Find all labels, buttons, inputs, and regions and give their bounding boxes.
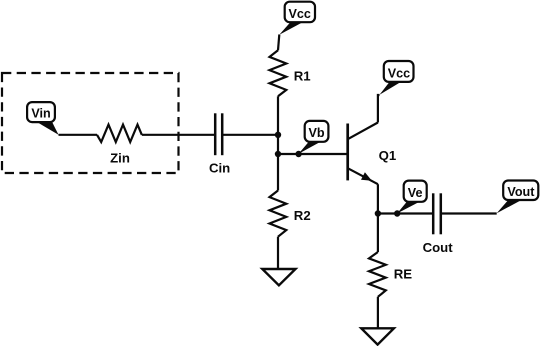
ground (RE branch) xyxy=(361,328,394,344)
wire emitter to Ve node xyxy=(377,184,379,213)
svg-text:Cout: Cout xyxy=(423,240,454,255)
svg-text:RE: RE xyxy=(394,267,413,282)
capacitor Cout xyxy=(433,193,441,234)
flag Ve xyxy=(397,181,427,214)
node Vb tap xyxy=(295,151,301,157)
wire base node to R2 xyxy=(277,154,279,191)
wire Vcc to R1 xyxy=(278,35,279,51)
label Q1 xyxy=(379,148,397,163)
svg-text:Zin: Zin xyxy=(110,151,130,166)
label Cin xyxy=(209,161,230,176)
svg-text:Ve: Ve xyxy=(408,186,423,200)
svg-text:Vcc: Vcc xyxy=(388,66,410,80)
wire R1 to input node xyxy=(277,96,279,135)
svg-text:Cin: Cin xyxy=(209,161,230,176)
wire Zin to Cin xyxy=(142,134,215,136)
svg-text:R1: R1 xyxy=(294,69,311,84)
wire collector to Vcc xyxy=(378,95,380,123)
dashed input impedance box xyxy=(2,73,179,173)
wire base node to Q1 base xyxy=(278,153,348,155)
node emitter junction xyxy=(375,210,381,216)
wire RE to ground xyxy=(377,297,379,329)
ground (R2 branch) xyxy=(262,269,295,285)
transistor Q1 xyxy=(348,123,378,185)
wire Cout to Vout xyxy=(441,212,497,214)
wire Ve node to RE xyxy=(377,214,379,253)
label RE xyxy=(394,267,413,282)
wire Vin to Zin xyxy=(59,134,98,136)
label Cout xyxy=(423,240,454,255)
wire Cin to base node xyxy=(222,134,278,136)
power flag Vcc (top) xyxy=(279,2,315,35)
resistor Zin xyxy=(97,125,142,142)
node Ve tap xyxy=(394,210,400,216)
port flag Vin xyxy=(27,102,58,135)
wire R2 to ground xyxy=(277,237,279,269)
capacitor Cin xyxy=(215,113,222,155)
node base junction xyxy=(275,151,281,157)
port flag Vout xyxy=(497,181,539,214)
resistor R1 xyxy=(270,50,287,96)
svg-text:R2: R2 xyxy=(294,208,311,223)
label R2 xyxy=(294,208,311,223)
resistor RE xyxy=(369,252,386,297)
svg-text:Vb: Vb xyxy=(308,126,324,140)
svg-text:Vcc: Vcc xyxy=(288,7,310,21)
resistor R2 xyxy=(270,191,287,237)
wire Ve node to Cout xyxy=(378,212,433,214)
svg-text:Q1: Q1 xyxy=(379,148,397,163)
flag Vb xyxy=(299,121,329,154)
node input junction xyxy=(275,132,281,138)
svg-text:Vin: Vin xyxy=(31,107,50,121)
label R1 xyxy=(294,69,311,84)
svg-text:Vout: Vout xyxy=(507,185,535,199)
label Zin xyxy=(110,151,130,166)
wire input node to base node xyxy=(277,135,279,154)
power flag Vcc (collector) xyxy=(380,61,414,95)
